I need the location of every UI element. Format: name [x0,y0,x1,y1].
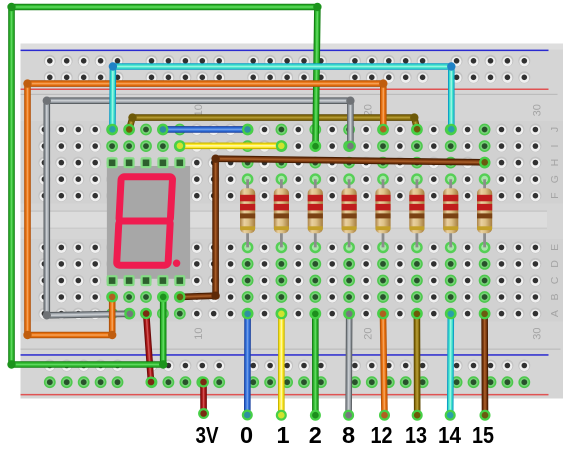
main grid holes rows A-E [38,241,541,319]
display pins row H (top, pins 1-5) [107,157,186,168]
svg-text:15: 15 [472,422,494,448]
top separator line [21,94,558,95]
svg-text:3V: 3V [196,422,219,448]
bottom rail red line [21,394,549,396]
svg-text:G: G [549,175,561,183]
bottom rail blue line [21,354,549,356]
svg-text:30: 30 [532,104,544,116]
wire cyan to pin 14 [445,308,457,420]
svg-text:F: F [549,192,561,198]
pin labels [196,422,495,448]
bottom power rail holes (red rail net connected) [44,360,531,389]
wire green to pin 2 [310,308,321,420]
svg-text:10: 10 [193,327,205,339]
wire yellow to pin 1 [276,308,287,420]
svg-text:30: 30 [532,327,544,339]
row letter labels [549,127,561,317]
svg-text:H: H [549,159,561,167]
resistor R6 (220 ohm, col 23) [409,173,424,253]
main grid holes rows F-J [38,124,541,202]
svg-text:J: J [549,127,561,132]
wire orange to pin 12 [378,308,391,420]
svg-text:1: 1 [276,422,289,448]
column number labels [193,104,544,340]
svg-text:C: C [549,276,561,284]
svg-text:A: A [549,310,561,317]
wire blue: row J col8 to row J col13 (pin 0 net) [157,124,253,135]
resistor R2 (220 ohm, col 15) [274,173,289,253]
svg-text:2: 2 [309,422,322,448]
wire yellow: row I col9 to row I col15 (pin 1 net) [174,140,286,151]
top power rail holes [44,55,531,84]
resistor R4 (220 ohm, col 19) [342,173,357,253]
display pins row C (bottom, pins 6-10) [107,275,186,286]
svg-text:14: 14 [438,422,461,448]
wire red: row A col7 to bottom red rail [141,308,157,387]
wire gray: row A col6 to row I col19 (pin 8 net) [43,97,356,320]
svg-text:E: E [549,244,561,251]
svg-text:12: 12 [371,422,393,448]
resistor R7 (220 ohm, col 25) [443,173,458,253]
wire dark-yellow to pin 13 [411,308,422,420]
wire green: row I col17 to row B col8 (pin 2 net, long loop) [7,3,321,369]
resistor R1 (220 ohm, col 13) [240,173,255,253]
wire gray to pin 8 [343,308,355,420]
top rail blue line [21,50,549,52]
wire cyan: row J col5 to row J col25 (pin 14 net) [107,62,457,135]
center channel groove [21,211,548,229]
resistor R8 (220 ohm, col 27) [477,173,492,253]
svg-text:D: D [549,260,561,268]
resistor R3 (220 ohm, col 17) [308,173,323,253]
wire orange: row J col21 to row B col5 (pin 12 net, long loop) [23,79,389,339]
wire red to 3V supply [198,377,209,420]
svg-text:20: 20 [362,327,374,339]
svg-text:0: 0 [240,422,253,448]
decimal point [173,260,180,267]
wire blue to pin 0 [242,308,253,420]
svg-text:8: 8 [342,422,355,448]
wire dark-brown to pin 15 [479,308,490,420]
svg-text:I: I [549,145,561,148]
svg-text:B: B [549,293,561,300]
resistor R5 (220 ohm, col 21) [375,173,390,253]
7-segment digit 8 [117,177,173,265]
wire dark-brown: row B col9 to row H col27 (pin 15 net) [175,155,491,303]
7-segment display U1 body [107,166,190,279]
top rail red line [21,89,549,91]
wire dark-yellow: row J col6 to row J col23 (pin 13 net) [124,113,423,134]
breadboard body [21,44,564,399]
bottom separator line [21,349,561,350]
svg-text:13: 13 [405,422,427,448]
